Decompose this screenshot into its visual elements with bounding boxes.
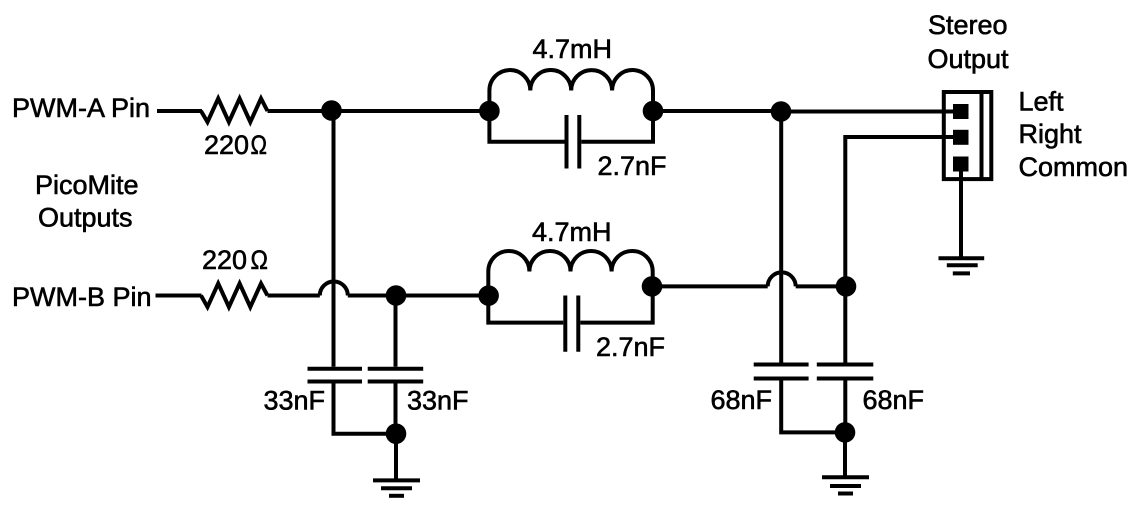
ground G1 xyxy=(373,478,420,482)
svg-text:4.7mH: 4.7mH xyxy=(532,217,612,247)
wire hop over V1 xyxy=(320,282,348,296)
wire R1 to node A1 xyxy=(268,109,334,113)
wire node A1 to L1 xyxy=(332,109,491,113)
svg-text:Ω: Ω xyxy=(251,130,268,160)
node L1 left dot xyxy=(479,101,500,122)
node G2 junction xyxy=(835,422,856,443)
connector J1 body xyxy=(944,92,992,179)
ground G2 xyxy=(822,475,869,479)
svg-text:PWM-B Pin: PWM-B Pin xyxy=(12,282,152,312)
wire hop 2 to node B2 xyxy=(796,284,846,288)
svg-text:PWM-A Pin: PWM-A Pin xyxy=(12,93,150,123)
capacitor C3 33nF left plates xyxy=(308,367,363,371)
capacitor C4 33nF right plates xyxy=(368,367,424,371)
node A2 junction xyxy=(771,101,792,122)
capacitor C6 68nF right plates xyxy=(817,363,874,367)
node L2 left dot xyxy=(478,285,499,306)
node L1 right dot xyxy=(643,101,664,122)
svg-text:Output: Output xyxy=(928,44,1010,74)
wire C3 bottom to node G1 xyxy=(334,382,397,434)
svg-text:2.7nF: 2.7nF xyxy=(598,151,667,181)
svg-text:4.7mH: 4.7mH xyxy=(533,34,613,64)
node B2 junction xyxy=(836,276,857,297)
wire L1 to node A2 xyxy=(653,109,781,113)
wire hop to node B1 to L2 xyxy=(348,294,489,298)
connector J1 pin 1 (Left) xyxy=(953,104,969,119)
svg-text:68nF: 68nF xyxy=(711,385,773,415)
svg-text:33nF: 33nF xyxy=(264,386,326,416)
svg-text:Stereo: Stereo xyxy=(928,10,1008,40)
wire V2 node A2 down to C5 xyxy=(779,112,783,363)
node A1 junction xyxy=(321,100,342,121)
wire C5 bottom to node G2 xyxy=(781,379,845,433)
capacitor C2 plates xyxy=(563,296,567,352)
svg-text:Ω: Ω xyxy=(251,245,269,275)
wire R2 to hop xyxy=(268,294,320,298)
svg-text:Right: Right xyxy=(1019,119,1083,149)
svg-text:2.7nF: 2.7nF xyxy=(596,332,665,362)
wire hop over V2 xyxy=(768,272,796,286)
wire connector pin 3 to ground G3 xyxy=(959,171,963,258)
svg-text:Outputs: Outputs xyxy=(38,203,133,233)
svg-text:Common: Common xyxy=(1019,152,1129,182)
node L2 right dot xyxy=(642,276,663,297)
wire C6 bottom to node G2 xyxy=(843,379,847,433)
capacitor C2 2.7nF rail xyxy=(488,286,652,322)
wire V1 node A1 down to C3 xyxy=(332,111,336,367)
svg-text:33nF: 33nF xyxy=(407,386,469,416)
svg-text:PicoMite: PicoMite xyxy=(35,170,139,200)
wire node B1 down to C4 xyxy=(394,296,398,367)
wire PWM-A to R1 xyxy=(157,109,202,113)
capacitor C5 68nF left plates xyxy=(754,363,809,367)
resistor R2 xyxy=(201,284,268,308)
connector J1 divider xyxy=(980,92,984,179)
node G1 junction xyxy=(386,423,407,444)
wire node G2 to ground xyxy=(843,432,847,477)
svg-text:68nF: 68nF xyxy=(863,385,925,415)
inductor L1 xyxy=(489,70,653,111)
resistor R1 xyxy=(201,99,268,123)
connector J1 pin 3 (Common) xyxy=(953,157,969,172)
capacitor C1 2.7nF rail xyxy=(489,111,653,142)
capacitor C1 plates xyxy=(565,115,569,169)
svg-text:220: 220 xyxy=(204,130,249,160)
svg-text:Left: Left xyxy=(1019,86,1065,116)
wire node A2 to connector pin 1 xyxy=(781,110,954,114)
node B1 junction xyxy=(386,285,407,306)
wire C4 bottom to node G1 xyxy=(394,382,398,435)
inductor L2 xyxy=(488,251,652,296)
wire PWM-B to R2 xyxy=(156,294,202,298)
wire L2 to hop 2 xyxy=(653,284,768,288)
ground G3 xyxy=(939,256,985,260)
wire node G1 to ground xyxy=(394,434,398,481)
svg-text:220: 220 xyxy=(202,245,247,275)
connector J1 pin 2 (Right) xyxy=(953,130,969,145)
wire V3 connector pin2 corner down to C6 xyxy=(845,137,954,363)
